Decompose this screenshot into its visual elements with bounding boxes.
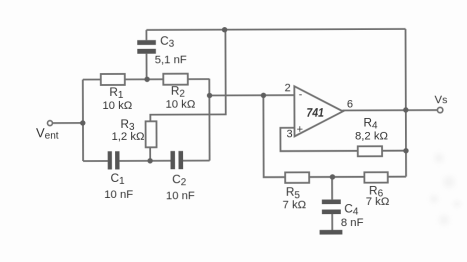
svg-text:6: 6 <box>347 98 353 110</box>
svg-text:3: 3 <box>286 128 292 140</box>
svg-text:R1: R1 <box>109 85 124 101</box>
svg-text:Vs: Vs <box>435 94 448 106</box>
svg-text:C2: C2 <box>172 172 187 188</box>
svg-text:8 nF: 8 nF <box>341 217 364 229</box>
svg-text:-: - <box>299 89 303 101</box>
svg-text:10 nF: 10 nF <box>104 189 133 201</box>
svg-text:R2: R2 <box>171 84 186 100</box>
svg-text:8,2 kΩ: 8,2 kΩ <box>355 131 388 143</box>
svg-text:+: + <box>297 124 303 136</box>
svg-text:7 kΩ: 7 kΩ <box>283 199 307 211</box>
svg-text:10 kΩ: 10 kΩ <box>165 99 195 111</box>
svg-text:C4: C4 <box>344 202 359 218</box>
svg-text:2: 2 <box>285 82 291 94</box>
svg-text:741: 741 <box>306 106 324 120</box>
svg-text:7 kΩ: 7 kΩ <box>366 196 390 208</box>
svg-text:R4: R4 <box>363 115 378 131</box>
svg-text:10 nF: 10 nF <box>166 190 195 202</box>
svg-text:1,2 kΩ: 1,2 kΩ <box>111 131 144 143</box>
svg-text:C1: C1 <box>111 171 126 187</box>
svg-text:10 kΩ: 10 kΩ <box>102 100 132 112</box>
svg-text:C3: C3 <box>160 34 175 50</box>
svg-text:5,1 nF: 5,1 nF <box>155 54 187 66</box>
svg-text:Vent: Vent <box>36 125 59 142</box>
